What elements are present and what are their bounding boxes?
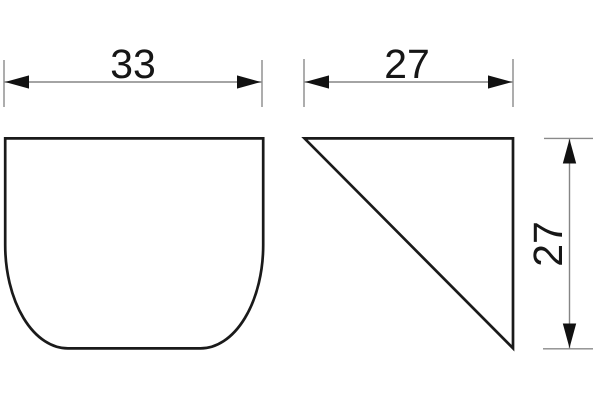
extension line right of 33 bbox=[261, 60, 263, 107]
label top 27 bbox=[386, 49, 427, 78]
dimension line 33 bbox=[5, 81, 262, 83]
side view: triangle outline bbox=[305, 138, 514, 348]
arrowhead down right 27 bbox=[563, 324, 576, 349]
dimension line right 27 bbox=[569, 139, 571, 349]
extension line left of top 27 bbox=[303, 59, 305, 107]
dimension line top 27 bbox=[305, 81, 513, 83]
extension line top of right 27 bbox=[544, 137, 593, 139]
arrowhead up right 27 bbox=[563, 139, 576, 164]
front view: rounded-bottom knob outline bbox=[5, 138, 263, 348]
arrowhead right top 27 bbox=[488, 75, 512, 88]
arrowhead left top 27 bbox=[305, 75, 329, 88]
label right 27 (rotated) bbox=[533, 223, 562, 264]
label 33 bbox=[112, 49, 154, 78]
arrowhead left 33 bbox=[5, 75, 29, 88]
extension line left of 33 bbox=[3, 60, 5, 107]
extension line right of top 27 bbox=[512, 59, 514, 107]
extension line bottom of right 27 bbox=[543, 348, 593, 350]
arrowhead right 33 bbox=[237, 75, 261, 88]
